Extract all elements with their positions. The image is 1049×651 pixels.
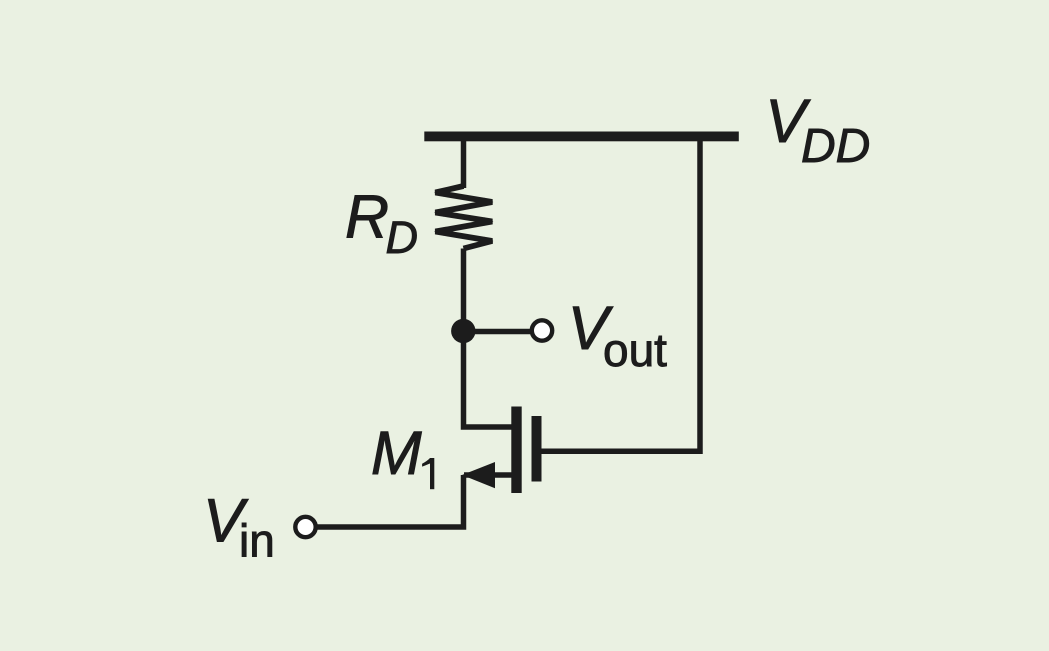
label RD [345, 182, 418, 263]
svg-text:DD: DD [801, 120, 870, 173]
svg-text:M: M [371, 419, 422, 487]
wire output stub [463, 329, 531, 335]
label Vout [568, 294, 667, 376]
transistor M1 gate plate [532, 416, 542, 482]
svg-text:D: D [386, 212, 419, 263]
svg-text:R: R [345, 182, 389, 250]
node junction dot [451, 319, 475, 343]
svg-text:out: out [603, 324, 667, 376]
resistor RD [435, 186, 492, 249]
terminal Vout open circle [532, 320, 552, 340]
label VDD [765, 87, 870, 173]
wire resistor bottom to drain [464, 249, 512, 428]
power rail VDD [424, 132, 739, 142]
wire source to Vin [318, 475, 464, 527]
transistor M1 source arrow [462, 462, 495, 488]
label M1 [371, 419, 434, 489]
terminal Vin open circle [295, 517, 315, 537]
wire source horizontal [464, 472, 512, 478]
svg-text:in: in [239, 514, 275, 566]
wire gate to VDD [542, 137, 701, 451]
wire resistor top [461, 137, 467, 188]
transistor M1 channel plate [511, 407, 521, 494]
label Vin [203, 486, 275, 566]
